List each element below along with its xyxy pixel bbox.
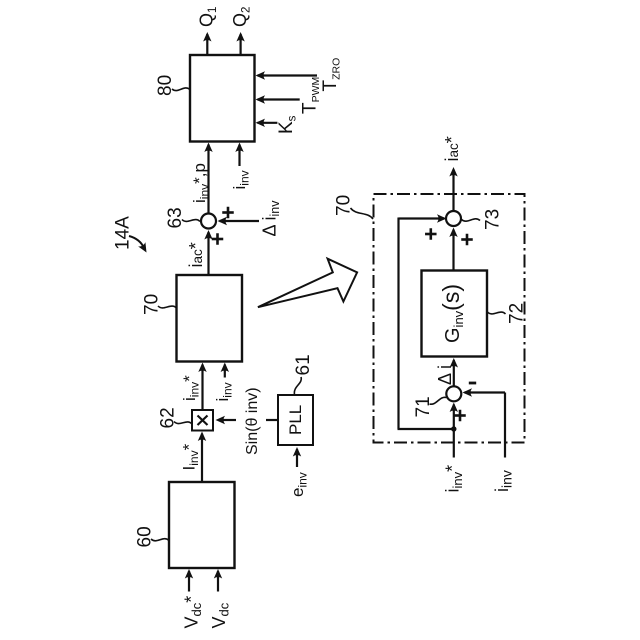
svg-text:iinv*: iinv*	[443, 465, 466, 493]
wire Ks input	[258, 122, 278, 124]
svg-text:Δ i: Δ i	[435, 365, 455, 385]
wire Q1 output	[206, 34, 208, 55]
svg-text:72: 72	[507, 303, 528, 324]
svg-text:iac*: iac*	[186, 242, 206, 267]
wire sin theta left segment	[220, 419, 236, 421]
svg-text:62: 62	[158, 407, 179, 428]
svg-text:73: 73	[483, 209, 504, 230]
wire iinv* from 62 to 70	[201, 365, 203, 411]
junction dot	[451, 426, 456, 431]
svg-text:Iinv*: Iinv*	[180, 443, 202, 470]
wire feedforward left vertical	[397, 218, 399, 430]
wire feedforward bottom	[398, 428, 454, 430]
svg-text:Vdc: Vdc	[209, 602, 232, 628]
svg-text:Vdc*: Vdc*	[182, 596, 205, 629]
block arrow to detail	[258, 259, 357, 308]
plus sign 73 bottom	[461, 238, 473, 241]
wire delta-iinv input	[220, 220, 260, 222]
block 72 Ginv(s)	[422, 271, 488, 357]
wire iac* output detail	[452, 170, 454, 211]
svg-text:70: 70	[142, 294, 163, 315]
svg-text:14A: 14A	[113, 216, 134, 250]
svg-text:iac*: iac*	[442, 136, 462, 161]
svg-text:iinv: iinv	[213, 382, 235, 401]
wire Iinv* from 60 to 62	[201, 434, 203, 483]
plus sign 63 right	[222, 211, 234, 214]
svg-text:iinv: iinv	[230, 170, 252, 189]
svg-text:TPWM: TPWM	[300, 77, 323, 114]
arrow 14A	[129, 236, 144, 248]
squiggle 80	[172, 88, 190, 91]
squiggle 70 detail	[351, 208, 374, 219]
svg-text:Q2: Q2	[230, 7, 253, 27]
minus sign 71 right	[469, 382, 476, 385]
svg-text:TZRO: TZRO	[320, 58, 343, 92]
wire Q2 output	[240, 34, 242, 55]
svg-text:80: 80	[155, 75, 176, 96]
squiggle 60	[151, 539, 169, 541]
wire Vdc* input	[188, 571, 190, 592]
squiggle 62	[174, 422, 192, 425]
svg-text:Ginv(s): Ginv(s)	[438, 284, 466, 343]
wire iac* from 70 to 63	[207, 232, 209, 275]
squiggle 70	[158, 306, 177, 308]
plus sign 73 left	[425, 233, 437, 236]
wire sin theta right segment	[266, 419, 278, 421]
plus sign 63 bottom	[212, 238, 224, 241]
svg-text:60: 60	[135, 526, 156, 547]
block 70	[177, 275, 243, 362]
svg-text:Ks: Ks	[276, 115, 299, 134]
summing junction 73	[446, 211, 461, 226]
svg-text:iinv*,p: iinv*,p	[190, 163, 212, 203]
wire iinv horizontal detail	[465, 391, 506, 393]
squiggle 63	[182, 220, 200, 222]
dash-dot boundary of 70 detail	[374, 194, 525, 443]
wire iinv into 70	[224, 365, 226, 378]
summing junction 71	[446, 386, 461, 401]
summing junction 63	[201, 214, 216, 229]
svg-text:61: 61	[293, 354, 314, 375]
svg-text:PLL: PLL	[286, 405, 305, 435]
wire iinv* input detail	[453, 405, 455, 458]
svg-text:einv: einv	[288, 472, 310, 497]
block 80	[190, 55, 255, 142]
wire einv input	[296, 449, 298, 467]
svg-text:Δ iinv: Δ iinv	[260, 200, 283, 237]
wire Vdc input	[217, 571, 219, 592]
svg-text:71: 71	[413, 396, 434, 417]
PLL block 61	[278, 395, 313, 445]
svg-text:iinv*: iinv*	[180, 375, 202, 401]
squiggle 61	[294, 377, 301, 395]
wire feedforward top	[399, 217, 445, 219]
wire 72 output to 73	[452, 230, 454, 271]
plus sign 71 bottom	[454, 414, 466, 417]
wire iinv vertical detail	[504, 393, 506, 458]
wire delta-i from 71 to 72	[453, 360, 455, 386]
svg-text:Q1: Q1	[197, 7, 220, 27]
wire iinv*,p	[207, 145, 209, 214]
wire Tzro input	[258, 74, 318, 76]
multiplier 62	[192, 410, 213, 431]
squiggle 72	[488, 312, 506, 314]
svg-text:70: 70	[334, 195, 355, 216]
svg-text:63: 63	[165, 207, 186, 228]
squiggle 73	[462, 219, 481, 221]
wire iinv into 80	[238, 145, 240, 167]
svg-text:Sin(θ inv): Sin(θ inv)	[244, 387, 261, 455]
svg-text:iinv: iinv	[492, 470, 515, 492]
squiggle 71	[430, 397, 447, 404]
wire Tpwm input	[258, 98, 300, 100]
block 60	[169, 482, 235, 568]
